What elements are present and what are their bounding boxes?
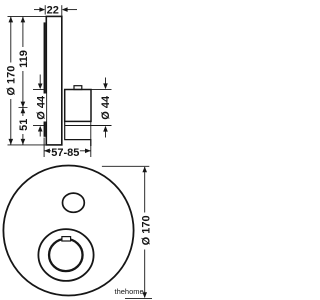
extension line bottom left: [8, 144, 47, 146]
dim 51 line: [22, 108, 24, 145]
knob outer circle: [38, 229, 93, 281]
knob notch front view: [62, 237, 71, 241]
dim 22 extension lines: [44, 5, 46, 14]
plate body side view: [46, 16, 62, 145]
plate front face line: [44, 22, 46, 136]
svg-text:Ø 170: Ø 170: [5, 66, 17, 96]
knob nub side view: [74, 86, 82, 90]
select button circle: [63, 193, 85, 212]
dim 22 arrow left: [34, 9, 40, 11]
label dia170 right: [140, 213, 152, 250]
dim dia170 front extension lines: [102, 165, 149, 167]
label 22: [5, 4, 153, 249]
knob side view: [65, 90, 91, 122]
label dia170 left: [5, 63, 17, 100]
svg-text:22: 22: [47, 5, 59, 17]
svg-text:51: 51: [18, 119, 30, 131]
knob base line: [65, 125, 112, 127]
extension tick 119/51: [19, 106, 28, 108]
svg-text:57-85: 57-85: [51, 147, 79, 159]
valve step outline: [65, 121, 91, 146]
extension line knob top right: [91, 88, 112, 90]
svg-text:Ø 44: Ø 44: [100, 95, 112, 120]
label 57-85: [51, 147, 80, 157]
extension line top left: [8, 15, 47, 17]
dim dia44 left extension stubs: [33, 89, 44, 91]
svg-text:Ø 44: Ø 44: [36, 95, 48, 120]
knob inner circle: [49, 239, 83, 271]
label dia44 left: [35, 94, 46, 122]
dim dia44 left arrows: [39, 75, 41, 85]
dim 22 arrow right: [67, 9, 77, 11]
dim dia44 right arrows: [105, 78, 107, 85]
svg-text:Ø 170: Ø 170: [141, 215, 152, 245]
dim 57-85 line and arrows: [44, 150, 91, 152]
dim 57-85 extension lines: [43, 138, 45, 158]
plate circle front view: [3, 166, 133, 296]
svg-text:119: 119: [18, 50, 30, 68]
svg-text:thehome: thehome: [115, 287, 144, 296]
label dia44 right: [100, 94, 111, 122]
label 119: [17, 47, 29, 71]
dim dia170 front line and arrows: [144, 167, 146, 213]
label 51: [17, 116, 29, 134]
dim 119 line: [22, 17, 24, 108]
dim dia170 left line: [10, 17, 12, 145]
